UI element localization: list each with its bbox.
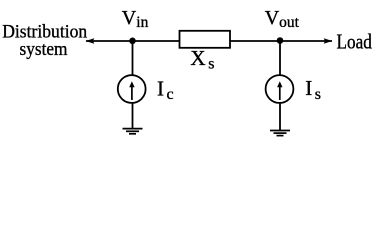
svg-text:V: V: [122, 7, 137, 29]
svg-text:s: s: [315, 86, 321, 103]
svg-text:I: I: [305, 76, 312, 100]
svg-text:I: I: [157, 76, 164, 100]
svg-text:in: in: [136, 14, 148, 31]
svg-text:s: s: [208, 55, 214, 72]
svg-text:V: V: [265, 7, 280, 29]
svg-text:X: X: [190, 46, 205, 70]
svg-text:c: c: [167, 86, 174, 103]
svg-text:Load: Load: [337, 30, 373, 54]
svg-text:system: system: [20, 39, 68, 60]
svg-text:out: out: [279, 14, 300, 31]
